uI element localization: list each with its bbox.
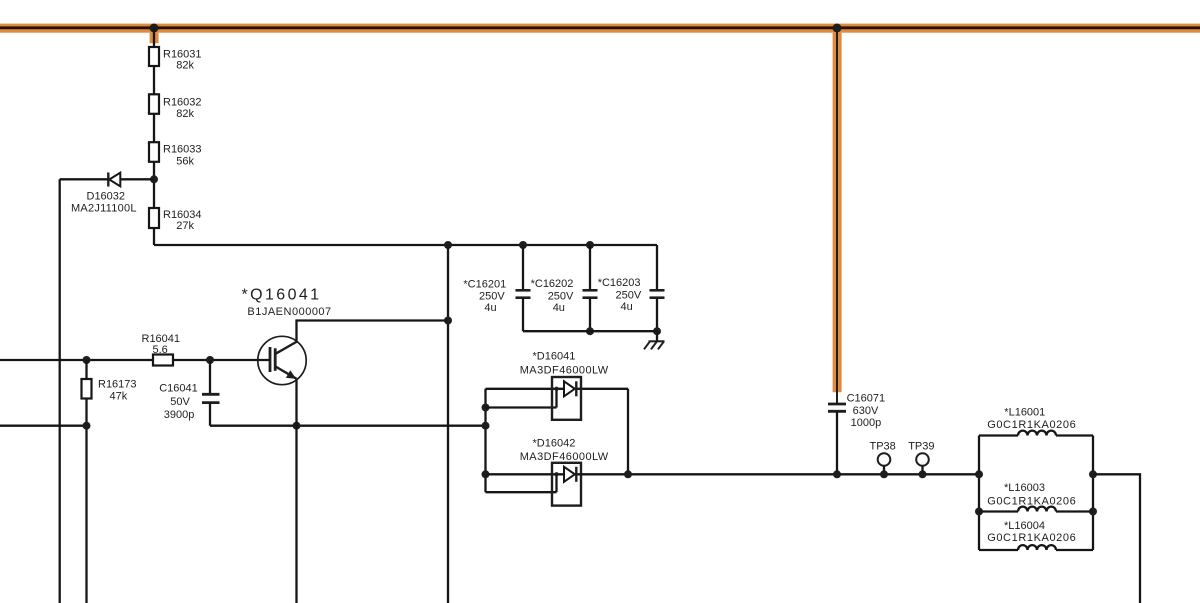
- wire: base rail y=360 from left edge: [0, 359, 270, 361]
- node: junction rail/vertical x=447.5: [444, 241, 452, 249]
- diode D16042: [486, 438, 609, 506]
- orange bus stub at R16031 tap: [150, 33, 159, 44]
- node: junction diode cathodes: [624, 470, 632, 478]
- svg-text:C16071: C16071: [847, 393, 886, 405]
- svg-text:C16041: C16041: [159, 383, 198, 395]
- capacitor C16071: [828, 393, 885, 479]
- inductor L16001: [979, 406, 1093, 435]
- svg-text:R16033: R16033: [163, 144, 202, 156]
- ground (chassis): [644, 331, 665, 349]
- svg-text:MA2J11100L: MA2J11100L: [71, 203, 137, 215]
- diode D16032: [71, 173, 137, 215]
- svg-text:82k: 82k: [176, 108, 194, 120]
- resistor R16031: [149, 47, 202, 72]
- resistor R16173: [82, 360, 137, 603]
- wire: inductor bank right vertical x=1093: [1092, 436, 1094, 551]
- svg-text:27k: 27k: [176, 220, 194, 232]
- svg-text:B1JAEN000007: B1JAEN000007: [247, 306, 331, 318]
- node: junction left rail y=474.3: [975, 470, 983, 478]
- svg-text:4u: 4u: [484, 302, 496, 314]
- svg-text:MA3DF46000LW: MA3DF46000LW: [520, 364, 609, 376]
- wire: anode bracket x=485.5: [484, 389, 486, 492]
- diode D16041: [486, 350, 629, 420]
- svg-text:250V: 250V: [548, 290, 574, 302]
- svg-text:TP39: TP39: [908, 441, 934, 453]
- node: junction right rail y=511.5: [1089, 508, 1097, 516]
- node: bracket junction y=425.7: [482, 422, 490, 430]
- wire: emitter rail y=425.7: [210, 425, 486, 427]
- wire: collector rail y=320.5: [297, 321, 448, 343]
- orange vertical bus to C16071: [833, 28, 842, 404]
- svg-text:50V: 50V: [170, 396, 190, 408]
- node: junction collector rail x=447.5 y=320.5: [444, 317, 452, 325]
- wire: inductor bank left vertical x=979: [978, 436, 980, 551]
- svg-text:*L16004: *L16004: [1004, 520, 1045, 532]
- node: junction at R16033/R16034/D16032: [150, 175, 158, 183]
- svg-text:*Q16041: *Q16041: [242, 287, 322, 304]
- node: bracket junction y=474.3: [482, 470, 490, 478]
- wire: long vertical x=447.5 to bottom: [447, 245, 449, 603]
- node: junction R16173 bottom: [83, 422, 91, 430]
- svg-text:G0C1R1KA0206: G0C1R1KA0206: [987, 419, 1076, 431]
- svg-text:3900p: 3900p: [164, 409, 195, 421]
- svg-text:250V: 250V: [616, 290, 642, 302]
- node: junction R16173 top: [83, 356, 91, 364]
- wire: emitter vertical to bottom: [295, 379, 297, 603]
- svg-text:4u: 4u: [621, 301, 633, 313]
- capacitor C16203: [598, 245, 665, 335]
- svg-text:630V: 630V: [853, 405, 879, 417]
- svg-text:*C16202: *C16202: [531, 278, 574, 290]
- node: junction right rail y=474.3: [1089, 470, 1097, 478]
- wire: capacitor bottom rail y=331.2: [523, 330, 657, 332]
- wire: left vertical x=59.7 down to edge: [59, 179, 61, 603]
- test point TP38: [870, 441, 896, 479]
- svg-text:R16032: R16032: [163, 96, 202, 108]
- inductor L16003: [979, 482, 1093, 511]
- svg-text:TP38: TP38: [870, 441, 896, 453]
- svg-text:G0C1R1KA0206: G0C1R1KA0206: [987, 496, 1076, 508]
- node: junction base/C16041 x=210: [206, 356, 214, 364]
- wire: lower-left rail y=425.7: [0, 425, 87, 427]
- node: junction emitter x=296.5: [293, 422, 301, 430]
- wire: diode branch horizontal y=179.3: [60, 178, 154, 180]
- svg-text:*C16201: *C16201: [463, 278, 506, 290]
- svg-text:56k: 56k: [176, 156, 194, 168]
- test point TP39: [908, 441, 934, 479]
- resistor R16041: [142, 333, 181, 366]
- svg-text:*D16042: *D16042: [533, 438, 576, 450]
- resistor R16032: [149, 94, 202, 120]
- svg-text:*C16203: *C16203: [598, 277, 641, 289]
- node: bracket junction y=407.5: [482, 404, 490, 412]
- svg-text:*L16003: *L16003: [1004, 482, 1045, 494]
- svg-text:1000p: 1000p: [851, 417, 882, 429]
- wire: output to bottom right: [1093, 474, 1140, 603]
- svg-text:R16031: R16031: [163, 48, 202, 60]
- svg-text:*D16041: *D16041: [533, 350, 576, 362]
- capacitor C16041: [159, 360, 219, 426]
- wire: cathode link vertical x=628: [627, 389, 629, 475]
- node: bus tap junction at x=154: [150, 24, 159, 33]
- svg-text:47k: 47k: [110, 391, 128, 403]
- resistor R16034: [149, 208, 202, 232]
- svg-text:4u: 4u: [553, 302, 565, 314]
- wire: resistor chain vertical x=154: [153, 28, 155, 245]
- orange power bus (top horizontal): [0, 24, 1200, 33]
- inductor L16004: [979, 520, 1093, 550]
- svg-text:R16173: R16173: [98, 379, 137, 391]
- svg-text:D16032: D16032: [87, 190, 126, 202]
- svg-text:G0C1R1KA0206: G0C1R1KA0206: [987, 532, 1076, 544]
- capacitor C16202: [531, 241, 598, 335]
- svg-text:250V: 250V: [479, 290, 505, 302]
- resistor R16033: [149, 142, 202, 167]
- svg-text:MA3DF46000LW: MA3DF46000LW: [520, 451, 609, 463]
- node: junction left rail y=511.5: [975, 508, 983, 516]
- svg-text:82k: 82k: [176, 60, 194, 72]
- wire: output rail y=474.3: [581, 473, 979, 475]
- transistor Q16041: [242, 287, 332, 385]
- capacitor C16201: [463, 241, 530, 331]
- node: bus tap junction at x=837: [833, 24, 842, 33]
- svg-text:5.6: 5.6: [153, 344, 168, 356]
- svg-text:*L16001: *L16001: [1004, 406, 1045, 418]
- wire: rail y=245 from R16034 to C16203: [154, 244, 657, 246]
